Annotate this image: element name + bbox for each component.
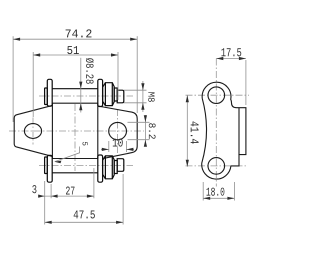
centerline vertical body [74, 104, 76, 171]
dim 18.0 [203, 182, 234, 201]
right view centerline horizontal top hole [186, 94, 250, 96]
centerline bolt1 axis [39, 95, 133, 97]
left plate hole [24, 124, 41, 139]
body bottom edge [52, 158, 98, 160]
dim 41.4 [186, 95, 199, 167]
centerline horizontal through plate holes [9, 130, 144, 132]
bolt1 assembly [45, 79, 124, 106]
right plate hole [109, 122, 127, 139]
left plate outline [14, 105, 52, 156]
body right edge [97, 103, 99, 158]
right view centerline horizontal bottom hole [186, 165, 249, 167]
right plate outline [98, 106, 137, 158]
right view bottom hole [208, 158, 225, 175]
dim M8 [124, 81, 155, 112]
thread stub [117, 90, 124, 103]
body top edge [52, 102, 98, 104]
dim 74.2 [13, 29, 137, 122]
body left edge [51, 103, 53, 158]
neck [114, 88, 117, 101]
dim 51 [33, 46, 118, 117]
shaft top line [52, 88, 98, 90]
right view centerline vertical [215, 59, 217, 187]
right view top hole [208, 87, 225, 104]
dim 3 and 27 [32, 168, 94, 225]
dim 8.2 [128, 115, 156, 147]
leader 5 [54, 142, 87, 163]
dim 10 [101, 138, 134, 152]
dim Ø8.28 leader [79, 58, 93, 113]
centerline bolt2 axis [39, 165, 133, 167]
washer right [98, 79, 103, 106]
bolt2 assembly (mirror) [45, 155, 124, 182]
right view fold line [238, 108, 240, 155]
centerline vertical left hole [32, 118, 34, 145]
hex nut [103, 83, 115, 106]
centerline vertical right hole [117, 109, 119, 153]
dim 17.5 [216, 48, 246, 105]
washer left [47, 79, 52, 106]
right view plate outline [202, 82, 246, 179]
bolt head [45, 88, 48, 105]
dim 47.5 [45, 174, 123, 225]
